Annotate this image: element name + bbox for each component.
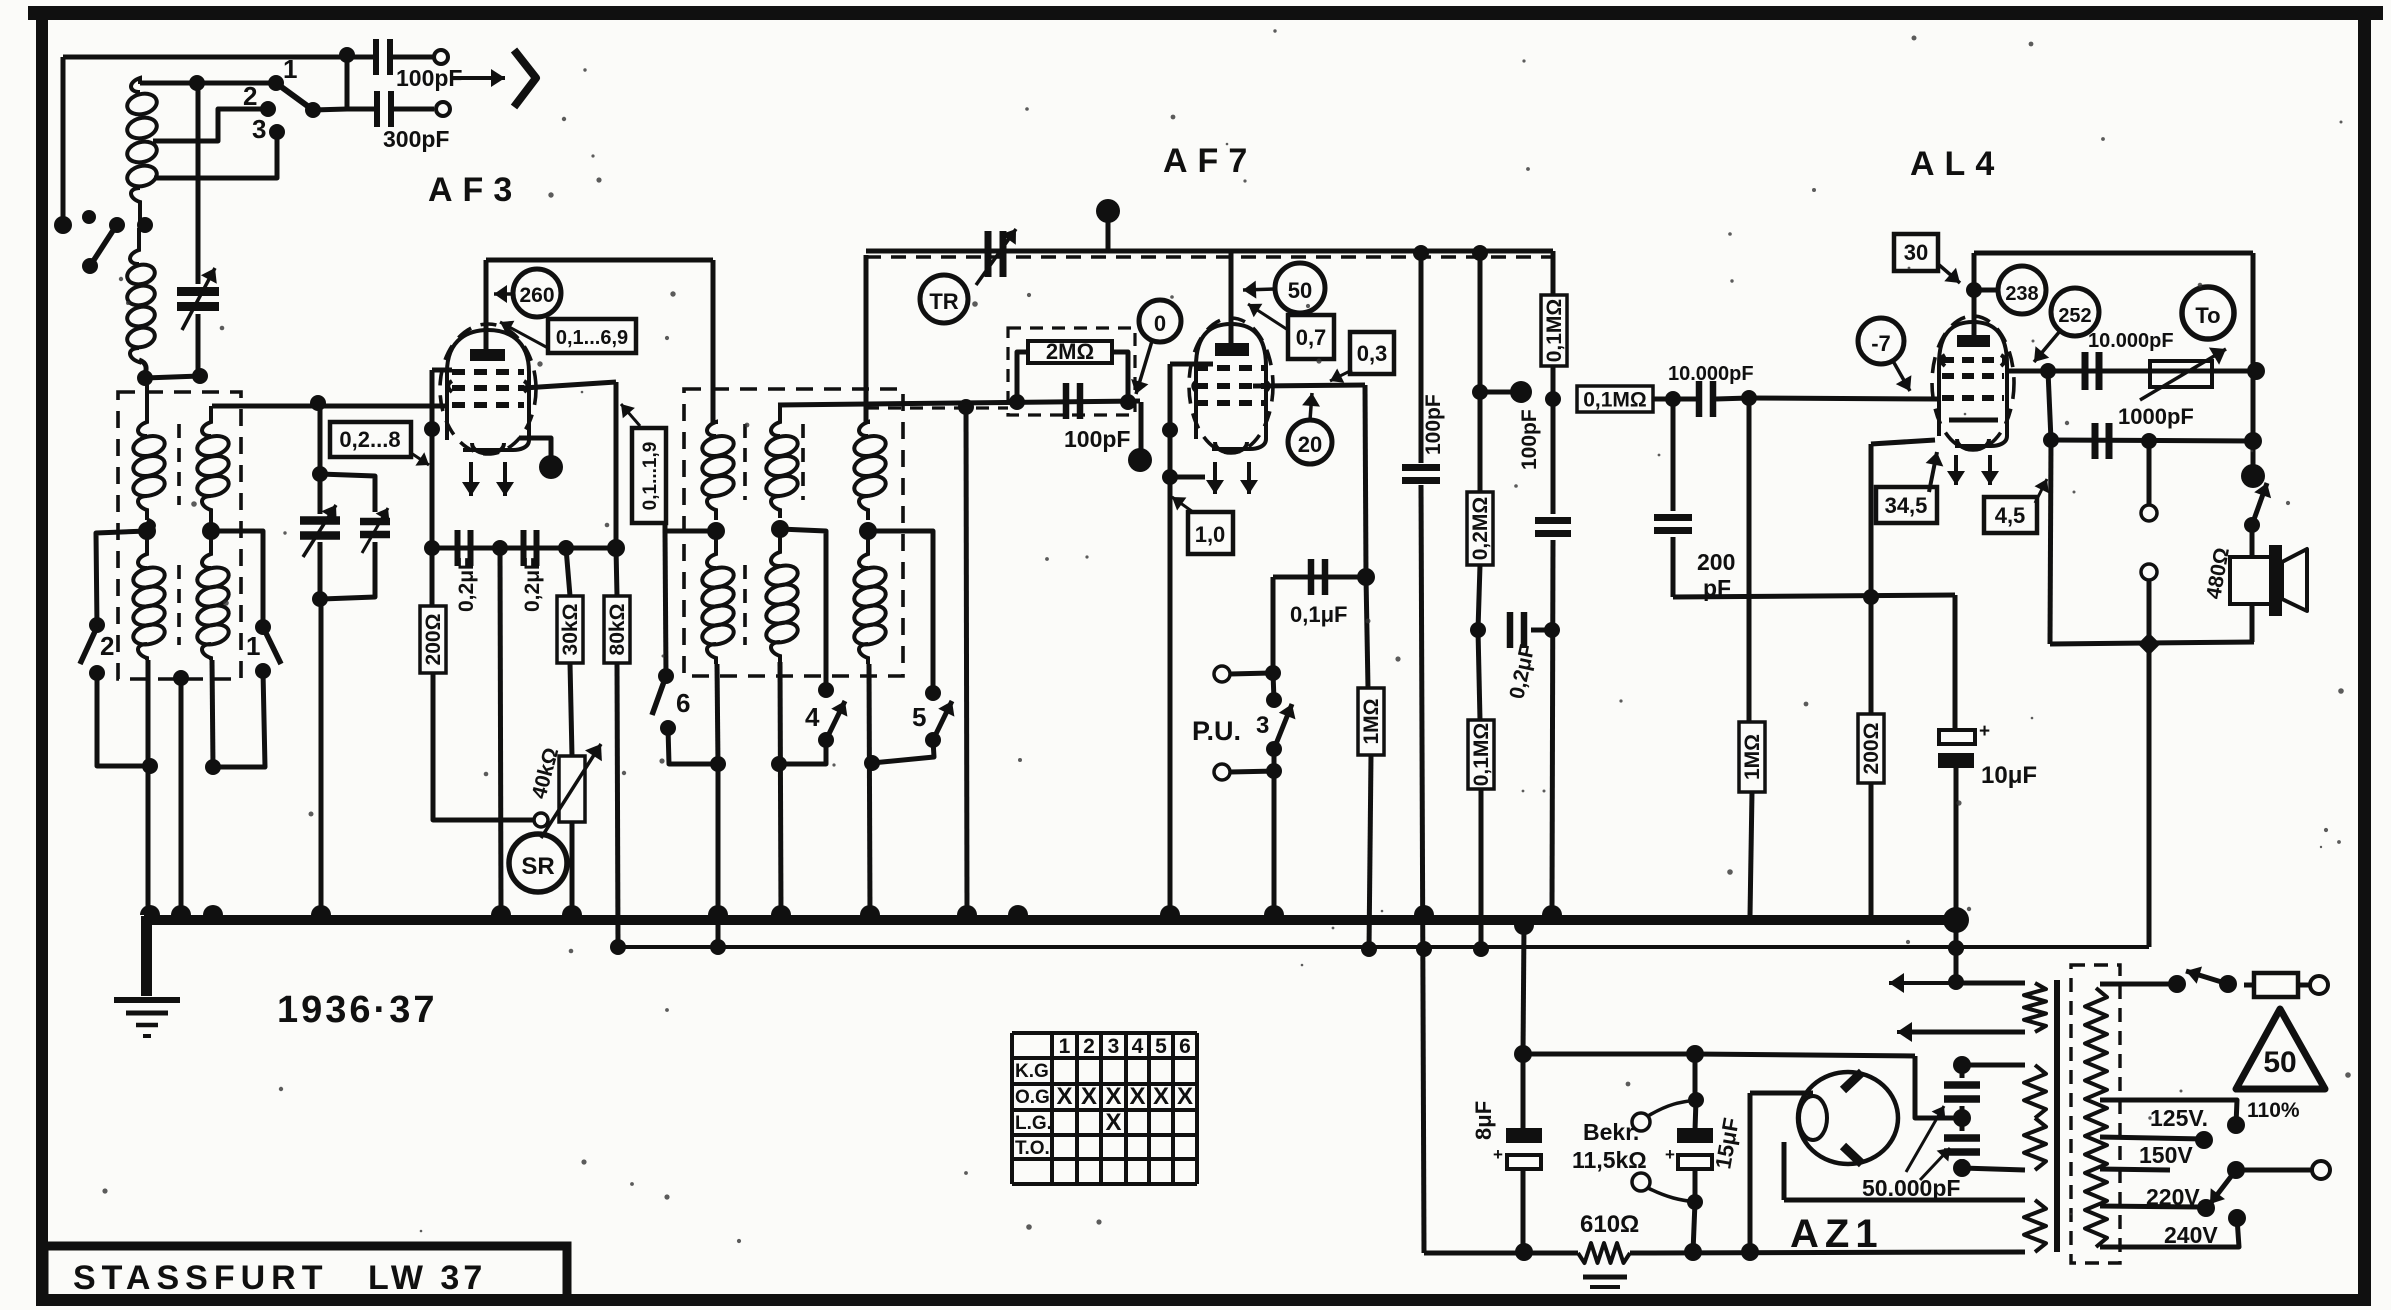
svg-text:50: 50 bbox=[2263, 1046, 2296, 1079]
svg-text:4,5: 4,5 bbox=[1995, 503, 2026, 528]
svg-text:240V: 240V bbox=[2164, 1222, 2218, 1248]
svg-text:300pF: 300pF bbox=[383, 126, 449, 152]
svg-text:0,2...8: 0,2...8 bbox=[339, 427, 400, 452]
svg-text:200: 200 bbox=[1697, 549, 1735, 575]
svg-text:AF7: AF7 bbox=[1163, 142, 1257, 180]
svg-text:AL4: AL4 bbox=[1910, 145, 2004, 183]
svg-text:1: 1 bbox=[1059, 1035, 1071, 1058]
svg-text:0,3: 0,3 bbox=[1357, 341, 1388, 366]
svg-text:SR: SR bbox=[521, 853, 554, 880]
svg-text:150V: 150V bbox=[2139, 1142, 2193, 1168]
svg-text:AF3: AF3 bbox=[428, 171, 522, 209]
svg-text:50.000pF: 50.000pF bbox=[1862, 1175, 1960, 1201]
svg-text:4: 4 bbox=[805, 702, 820, 732]
svg-text:3: 3 bbox=[1256, 712, 1269, 739]
svg-text:2: 2 bbox=[1083, 1035, 1095, 1058]
svg-text:220V.: 220V. bbox=[2146, 1184, 2204, 1210]
svg-text:1000pF: 1000pF bbox=[2118, 404, 2194, 429]
svg-text:0,7: 0,7 bbox=[1296, 325, 1327, 350]
svg-text:+: + bbox=[1665, 1145, 1675, 1164]
svg-text:X: X bbox=[1153, 1083, 1169, 1110]
svg-text:100pF: 100pF bbox=[1518, 409, 1541, 470]
svg-text:2MΩ: 2MΩ bbox=[1046, 339, 1094, 364]
svg-text:125V.: 125V. bbox=[2150, 1105, 2208, 1131]
svg-text:P.U.: P.U. bbox=[1192, 716, 1241, 746]
svg-text:0,2MΩ: 0,2MΩ bbox=[1469, 497, 1492, 561]
svg-text:0,1...6,9: 0,1...6,9 bbox=[556, 327, 628, 349]
svg-text:100pF: 100pF bbox=[1422, 394, 1445, 455]
svg-text:100pF: 100pF bbox=[1064, 426, 1130, 452]
svg-text:200Ω: 200Ω bbox=[422, 614, 445, 666]
svg-text:0,2μF: 0,2μF bbox=[455, 557, 478, 612]
svg-text:LW 37: LW 37 bbox=[368, 1259, 486, 1297]
svg-text:STASSFURT: STASSFURT bbox=[73, 1259, 328, 1297]
svg-text:238: 238 bbox=[2005, 283, 2038, 305]
svg-text:5: 5 bbox=[912, 702, 926, 732]
svg-text:X: X bbox=[1105, 1083, 1121, 1110]
svg-text:X: X bbox=[1056, 1083, 1072, 1110]
svg-text:O.G.: O.G. bbox=[1015, 1087, 1055, 1108]
svg-text:0,1MΩ: 0,1MΩ bbox=[1583, 389, 1647, 412]
svg-text:1MΩ: 1MΩ bbox=[1741, 734, 1764, 780]
svg-text:200Ω: 200Ω bbox=[1860, 723, 1883, 775]
svg-text:2: 2 bbox=[100, 631, 114, 661]
svg-text:1MΩ: 1MΩ bbox=[1360, 698, 1383, 744]
svg-text:0,1MΩ: 0,1MΩ bbox=[1470, 723, 1493, 787]
svg-text:5: 5 bbox=[1155, 1035, 1167, 1058]
svg-text:TR: TR bbox=[929, 289, 958, 314]
svg-text:6: 6 bbox=[1179, 1035, 1191, 1058]
svg-text:Bekr.: Bekr. bbox=[1583, 1119, 1639, 1145]
svg-text:L.G.: L.G. bbox=[1015, 1113, 1052, 1134]
svg-text:8μF: 8μF bbox=[1471, 1101, 1496, 1140]
svg-text:11,5kΩ: 11,5kΩ bbox=[1572, 1147, 1647, 1173]
svg-text:110%: 110% bbox=[2247, 1099, 2300, 1122]
svg-text:34,5: 34,5 bbox=[1885, 493, 1928, 518]
svg-text:0,1μF: 0,1μF bbox=[1290, 602, 1347, 627]
svg-text:0,1MΩ: 0,1MΩ bbox=[1543, 299, 1566, 363]
svg-text:T.O.: T.O. bbox=[1015, 1138, 1050, 1159]
svg-text:K.G.: K.G. bbox=[1015, 1061, 1054, 1082]
svg-text:252: 252 bbox=[2058, 305, 2091, 327]
svg-text:260: 260 bbox=[519, 284, 554, 307]
svg-text:10.000pF: 10.000pF bbox=[2088, 330, 2174, 352]
svg-text:10μF: 10μF bbox=[1981, 762, 2037, 789]
svg-text:610Ω: 610Ω bbox=[1580, 1211, 1639, 1238]
svg-text:1,0: 1,0 bbox=[1195, 522, 1226, 547]
svg-text:+: + bbox=[1979, 721, 1990, 742]
svg-text:X: X bbox=[1105, 1109, 1121, 1136]
svg-text:20: 20 bbox=[1298, 432, 1322, 457]
svg-text:0: 0 bbox=[1154, 311, 1166, 336]
svg-text:0,1...1,9: 0,1...1,9 bbox=[640, 442, 661, 511]
svg-text:1: 1 bbox=[246, 631, 260, 661]
svg-text:AZ1: AZ1 bbox=[1790, 1212, 1884, 1256]
svg-text:30kΩ: 30kΩ bbox=[559, 604, 582, 656]
svg-text:To: To bbox=[2195, 303, 2220, 328]
svg-text:+: + bbox=[1493, 1145, 1503, 1164]
svg-text:1: 1 bbox=[283, 54, 297, 84]
svg-text:X: X bbox=[1129, 1083, 1145, 1110]
svg-text:3: 3 bbox=[252, 114, 266, 144]
svg-text:4: 4 bbox=[1132, 1035, 1144, 1058]
svg-text:50: 50 bbox=[1288, 278, 1312, 303]
svg-text:X: X bbox=[1081, 1083, 1097, 1110]
svg-text:0,2μF: 0,2μF bbox=[521, 557, 544, 612]
svg-text:6: 6 bbox=[676, 688, 690, 718]
svg-text:80kΩ: 80kΩ bbox=[606, 604, 629, 656]
svg-text:-7: -7 bbox=[1871, 331, 1891, 356]
svg-text:X: X bbox=[1177, 1083, 1193, 1110]
svg-text:10.000pF: 10.000pF bbox=[1668, 363, 1754, 385]
svg-text:30: 30 bbox=[1904, 240, 1928, 265]
svg-text:3: 3 bbox=[1108, 1035, 1120, 1058]
svg-text:1936·37: 1936·37 bbox=[277, 989, 437, 1031]
